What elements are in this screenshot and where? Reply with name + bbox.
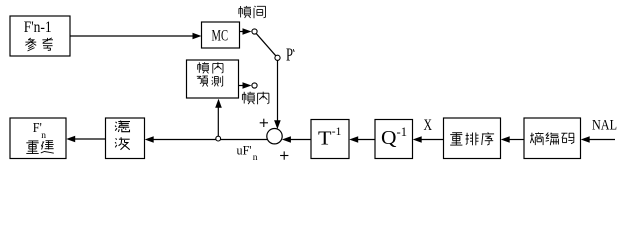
char bian(en-) [546, 133, 559, 146]
wire T-1 to adder [289, 139, 311, 141]
svg-text:P: P [286, 45, 293, 65]
char jian(between) [254, 6, 266, 18]
char zhen(frame) [239, 6, 251, 18]
wire junction up to intra prediction [217, 104, 219, 136]
wire NAL input [589, 139, 616, 141]
char zhong(re) [26, 141, 38, 154]
char yu(pre) [197, 76, 208, 87]
svg-text:F'n-1: F'n-1 [24, 19, 52, 36]
plus sign upper-left of adder [260, 122, 268, 124]
char bo(wave) [115, 137, 130, 150]
wire entropy to reorder [508, 139, 524, 141]
char kao(reference) [42, 38, 53, 51]
svg-text:Q: Q [381, 127, 397, 149]
char lv(filter) [115, 121, 130, 133]
char shang(entropy) [530, 132, 543, 145]
junction node [216, 136, 221, 141]
switch pole P [275, 55, 280, 60]
svg-text:uF': uF' [237, 143, 252, 158]
char ma(code) [561, 133, 574, 144]
switch blade wire [256, 34, 275, 56]
box filter [106, 118, 145, 159]
box F'n-1 reference frame [10, 16, 70, 56]
wire intra-pred to switch contact [239, 85, 245, 87]
char zhen(frame) [242, 92, 254, 104]
svg-text:MC: MC [212, 28, 229, 45]
char ce(measure) [212, 76, 223, 87]
switch contact intra [252, 83, 257, 88]
svg-text:-1: -1 [332, 124, 342, 138]
adder (summing node) [267, 129, 282, 144]
box F'n reconstructed [10, 118, 66, 159]
box intra prediction [187, 60, 239, 98]
svg-text:-1: -1 [397, 124, 408, 139]
wire adder to filter with junction [153, 139, 267, 141]
wire reorder to Q-1 [420, 139, 444, 141]
char nei(intra) [258, 92, 269, 105]
char zhong(re) [450, 133, 462, 145]
wire Q-1 to T-1 [357, 139, 375, 141]
char jian(build) [41, 141, 54, 154]
plus sign lower-right of adder [280, 155, 288, 157]
svg-text:NAL: NAL [592, 118, 617, 134]
wire MC to switch contact [240, 31, 245, 33]
switch contact inter [252, 29, 257, 34]
char pai(arrange) [466, 133, 479, 146]
char can(participate) [25, 38, 36, 51]
svg-text:n: n [41, 131, 46, 141]
box entropy coding [524, 118, 581, 159]
box MC motion compensation [202, 22, 240, 48]
char zhen(frame) [198, 62, 209, 73]
wire F'n-1 to MC [70, 35, 193, 37]
svg-text:X: X [424, 117, 433, 134]
wire P down to adder [277, 61, 279, 123]
box reorder [444, 118, 501, 159]
char xu(order) [482, 132, 494, 145]
box T-1 inverse transform [311, 120, 349, 159]
svg-text:T: T [318, 128, 332, 150]
wire filter to Fn-recon [74, 138, 106, 140]
svg-text:n: n [253, 153, 258, 163]
box Q-1 inverse quantization [375, 120, 413, 159]
char nei(intra) [213, 62, 223, 73]
